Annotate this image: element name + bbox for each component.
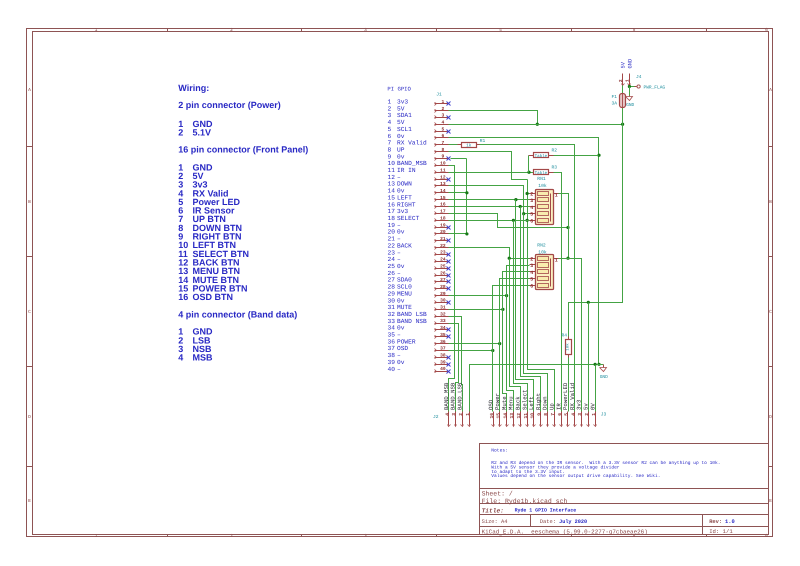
wire 5V to J3 pin2 [588,303,590,412]
svg-text:6: 6 [530,218,533,224]
svg-text:PWR_FLAG: PWR_FLAG [644,85,666,91]
svg-text:17: 17 [440,209,446,215]
svg-text:A: A [769,87,772,93]
svg-text:26: 26 [440,270,446,276]
svg-text:16: 16 [489,413,495,419]
svg-text:GND: GND [600,374,608,380]
svg-text:File: Ryde1b.kicad_sch: File: Ryde1b.kicad_sch [482,498,568,505]
svg-text:30: 30 [440,298,446,304]
svg-text:E: E [28,498,31,504]
svg-text:2: 2 [230,27,233,33]
svg-text:1.0: 1.0 [725,519,735,525]
svg-text:J4: J4 [636,74,642,80]
svg-text:Wiring:: Wiring: [178,83,209,93]
svg-text:R3: R3 [552,164,558,170]
junction POWER drop [498,342,501,345]
svg-text:R2: R2 [552,148,558,154]
svg-text:2: 2 [530,191,533,197]
svg-text:D: D [769,414,772,420]
wire R4 to J3 PowerLED [568,358,570,412]
svg-text:16 pin connector (Front Panel): 16 pin connector (Front Panel) [178,144,308,154]
svg-text:Sheet: /: Sheet: / [482,490,513,497]
junction RIGHT drop [519,205,522,208]
svg-text:8: 8 [442,147,445,153]
svg-text:6: 6 [530,284,533,290]
svg-text:3: 3 [577,413,583,416]
svg-text:1: 1 [95,533,98,539]
svg-text:40: 40 [388,366,396,373]
wire BAND_LSB [449,317,463,412]
wire J4 pin1 to gnd [629,87,631,96]
junction IR divider [527,171,530,174]
svg-text:1: 1 [625,79,631,82]
junction 5V J3 feed [587,301,590,304]
svg-text:5: 5 [564,413,570,416]
wire SELECT to J3 [514,221,528,412]
svg-text:4: 4 [570,413,576,416]
svg-text:6: 6 [557,413,563,416]
wire MUTE up to RN2 [503,272,530,310]
junction UP RN1 pin2 [526,192,529,195]
svg-text:39: 39 [440,359,446,365]
wire LEFT to J3 [516,200,534,412]
svg-text:24: 24 [440,257,446,263]
power flag PWR_FLAG [635,86,637,88]
svg-text:BAND_LSB: BAND_LSB [457,382,464,410]
junction 5V fuse [621,123,624,126]
resistor R3 [549,172,554,174]
wire R2 out [554,155,599,157]
svg-text:July 2020: July 2020 [559,519,587,525]
svg-text:14: 14 [502,413,508,419]
svg-text:1: 1 [442,99,445,105]
svg-text:1: 1 [555,193,558,199]
svg-text:5: 5 [633,27,636,33]
wire R2 left drop [528,156,530,173]
svg-text:16: 16 [440,202,446,208]
wire MENU up to RN2 [507,266,530,296]
svg-text:RN2: RN2 [537,243,546,249]
junction gnd bus [597,363,600,366]
svg-text:15: 15 [496,413,502,419]
svg-text:Notes:: Notes: [491,448,508,454]
svg-text:31: 31 [440,305,446,311]
resistor R1 [458,144,462,146]
svg-text:3: 3 [530,198,533,204]
wire 3v3 pin17 [449,214,569,228]
svg-text:Id: 1/1: Id: 1/1 [709,528,733,535]
svg-text:2: 2 [458,413,464,416]
wire gnd bus [470,365,604,412]
svg-text:B: B [28,199,31,205]
junction R2 gnd [597,154,600,157]
wire SELECT [449,220,530,222]
svg-text:1: 1 [555,258,558,264]
svg-text:29: 29 [440,291,446,297]
svg-text:4: 4 [178,353,183,363]
junction MUTE drop [501,308,504,311]
svg-text:9: 9 [442,154,445,160]
svg-text:RN1: RN1 [537,176,546,182]
resistor R4 [568,337,570,340]
svg-text:10k: 10k [538,183,547,189]
wire BAND_MSB [449,166,455,412]
svg-text:2 pin connector (Power): 2 pin connector (Power) [178,100,281,110]
svg-text:4: 4 [499,27,502,33]
svg-text:J3: J3 [601,412,607,418]
svg-text:OSD BTN: OSD BTN [193,292,234,302]
svg-text:D: D [28,414,31,420]
svg-text:10: 10 [530,413,536,419]
svg-text:5: 5 [530,277,533,283]
junction 0v pin14 [465,191,468,194]
svg-text:3: 3 [442,113,445,119]
wire DOWN [449,186,530,214]
svg-text:2: 2 [178,128,183,138]
svg-text:32: 32 [440,311,446,317]
svg-text:GND: GND [626,102,634,108]
wire POWER to J3 [499,344,501,412]
svg-text:3: 3 [364,27,367,33]
svg-text:7: 7 [550,413,556,416]
svg-text:12: 12 [440,174,446,180]
svg-text:14: 14 [440,188,446,194]
wire MUTE to J3 [503,310,507,412]
svg-text:18: 18 [440,215,446,221]
svg-text:10: 10 [440,161,446,167]
svg-text:2: 2 [618,79,624,82]
svg-text:11: 11 [523,413,529,419]
wire J3 pin1 0V [595,365,597,412]
svg-text:–: – [397,366,401,373]
svg-text:3: 3 [451,413,457,416]
svg-text:Size: A4: Size: A4 [482,519,508,525]
junction UP crossing select [526,219,529,222]
svg-text:Title:: Title: [482,507,504,514]
svg-text:Values depend on the sensor ou: Values depend on the sensor output drive… [491,473,660,479]
svg-text:1: 1 [95,27,98,33]
wire 0v pin9 [451,158,467,160]
wire BACK to J3 [510,259,521,412]
wire pin7 to R1 [449,144,462,146]
svg-text:C: C [28,309,31,315]
svg-text:Rev:: Rev: [709,519,722,525]
svg-text:23: 23 [440,250,446,256]
svg-text:4 pin connector (Band data): 4 pin connector (Band data) [178,310,297,320]
svg-text:J2: J2 [433,414,439,420]
wire 5V pin2 [449,111,538,125]
svg-text:4: 4 [442,119,445,125]
svg-text:A: A [28,87,31,93]
svg-text:1k: 1k [466,143,472,149]
svg-text:B: B [769,199,772,205]
wire OSD to J3 [492,351,494,412]
svg-text:J1: J1 [436,91,442,97]
svg-text:20: 20 [440,229,446,235]
svg-text:21: 21 [440,236,446,242]
svg-text:35: 35 [440,332,446,338]
svg-text:37: 37 [440,346,446,352]
ground symbol top [629,96,631,97]
svg-text:6: 6 [765,27,768,33]
wire 0v pin6 [449,138,599,365]
wire MENU [449,295,507,297]
wire MENU to J3 [507,296,514,412]
svg-text:Date:: Date: [540,519,556,525]
svg-text:13: 13 [440,181,446,187]
svg-text:KiCad E.D.A. eeschema (5.99.0: KiCad E.D.A. eeschema (5.99.0-2277-g7cba… [482,528,648,535]
junction 5V pin4 [536,123,539,126]
svg-text:36: 36 [440,339,446,345]
svg-text:3: 3 [530,263,533,269]
svg-text:2: 2 [530,256,533,262]
wire RIGHT [449,206,530,208]
junction OSD drop [491,349,494,352]
svg-text:25: 25 [440,263,446,269]
svg-text:2: 2 [584,413,590,416]
junction SELECT drop [512,219,515,222]
wire RIGHT to J3 [521,207,541,412]
svg-text:15: 15 [440,195,446,201]
svg-text:4: 4 [530,205,533,211]
svg-text:R4: R4 [562,333,568,339]
wire J4 pin1 down [630,86,635,87]
junction 0v pin20 [465,232,468,235]
wire UP to J3 [528,180,555,412]
wire DOWN to J3 [524,214,548,412]
svg-text:2: 2 [442,106,445,112]
svg-text:9: 9 [536,413,542,416]
svg-text:4: 4 [444,413,450,416]
svg-text:GND: GND [627,59,633,69]
wire R3 out to J3 IR [554,173,562,412]
svg-text:MSB: MSB [193,353,214,363]
wire 5V rail [569,108,623,340]
wire OSD up to RN2 [493,286,530,351]
svg-text:1: 1 [591,413,597,416]
fuse F1 [620,94,626,108]
svg-text:33: 33 [440,318,446,324]
wire RN1 common [559,194,569,259]
svg-text:7: 7 [442,140,445,146]
svg-text:2: 2 [230,533,233,539]
svg-text:34: 34 [440,325,446,331]
svg-text:5.1V: 5.1V [193,128,212,138]
svg-text:11: 11 [440,167,446,173]
junction 3v3 RN1 [566,226,569,229]
svg-text:R1: R1 [480,138,486,144]
wire MUTE [449,309,503,311]
title block frame [480,444,769,489]
svg-text:Ryde 1 GPIO Interface: Ryde 1 GPIO Interface [515,508,577,514]
junction LEFT drop [514,198,517,201]
svg-text:12: 12 [516,413,522,419]
wire 5V pin4 [449,124,623,126]
svg-text:27: 27 [440,277,446,283]
resistor R2 [529,155,534,157]
svg-text:16: 16 [178,292,188,302]
svg-text:C: C [769,309,772,315]
svg-text:38: 38 [440,352,446,358]
wire BACK [449,248,530,259]
svg-text:E: E [769,498,772,504]
wire POWER [449,343,500,345]
wire UP [449,152,528,180]
svg-text:0V: 0V [589,403,596,410]
svg-text:3A: 3A [612,101,618,107]
junction DOWN drop [522,212,525,215]
svg-text:19: 19 [440,222,446,228]
junction BACK drop [508,257,511,260]
svg-text:22: 22 [440,243,446,249]
svg-text:5: 5 [442,126,445,132]
svg-text:6: 6 [765,533,768,539]
svg-text:8: 8 [543,413,549,416]
wire POWER up to RN2 [500,279,530,344]
svg-text:5: 5 [530,212,533,218]
wire 0v vertical [466,193,468,234]
wire J4 pin2 to fuse [622,86,624,94]
junction J3 0V [594,363,597,366]
wire OSD [449,350,493,352]
wire RN2 common to J3 3v3 [553,259,582,412]
wire 0v pin20 [449,233,467,235]
svg-text:3: 3 [364,533,367,539]
wire 0v pin14 [449,159,467,193]
svg-text:13: 13 [509,413,515,419]
wire LEFT [449,199,530,201]
ground symbol bottom [603,365,605,368]
svg-text:PI GPIO: PI GPIO [387,85,411,92]
junction MENU drop [505,294,508,297]
svg-text:28: 28 [440,284,446,290]
svg-text:F1: F1 [612,94,618,100]
svg-text:4: 4 [530,270,533,276]
svg-text:1: 1 [465,413,471,416]
svg-text:40: 40 [440,366,446,372]
junction pwr flag [628,85,631,88]
junction RN2 common [566,257,569,260]
wire RX_Valid [480,145,575,412]
svg-text:5V: 5V [620,61,626,68]
wire RN1 pin2 stub [528,193,530,195]
wire BAND_NSB [449,324,459,412]
svg-text:6: 6 [442,133,445,139]
wire pin11 IR [449,172,534,174]
